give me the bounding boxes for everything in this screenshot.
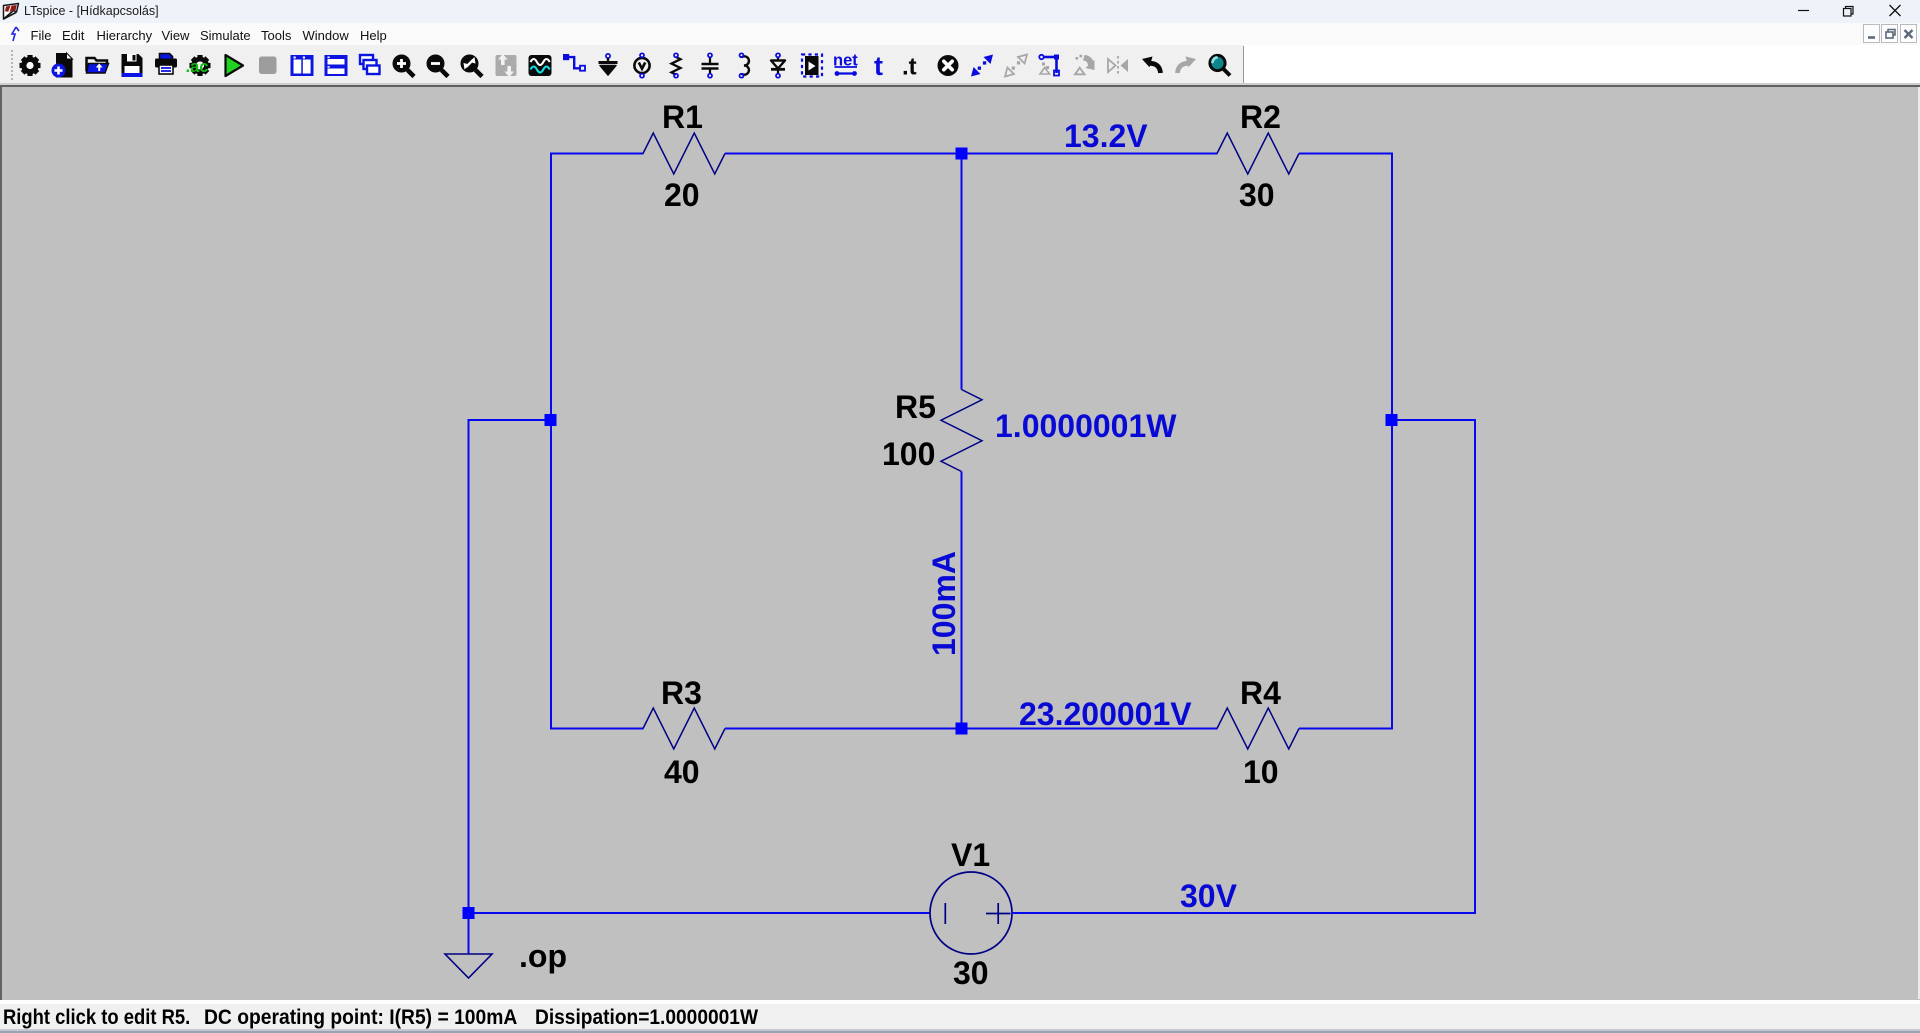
junction bottom center node [956,723,968,735]
wire R5 top lead [961,154,963,390]
menu bar [0,23,1920,45]
value 20 [664,177,700,213]
resistor R1 [643,133,725,174]
wire bottom rail left segment [551,728,644,730]
power annotation 1.0000001W [995,408,1177,444]
svg-text:23.200001V: 23.200001V [1019,696,1192,732]
wire top rail middle segment [725,153,1218,155]
resistor R2 [1217,133,1299,174]
value 10 [1243,754,1279,790]
value 100 [882,436,935,472]
wire left rail [550,153,552,730]
wire bottom rail middle segment [725,728,1218,730]
current annotation 100mA (rotated) [926,551,962,656]
svg-text:R3: R3 [661,675,702,711]
window title bar [0,0,1920,23]
wire V1 to right drop [1012,912,1477,914]
svg-text:1.0000001W: 1.0000001W [995,408,1177,444]
wire left drop vertical [468,419,470,913]
ground symbol [445,954,492,978]
svg-text:10: 10 [1243,754,1279,790]
value 40 [664,754,700,790]
wire ground stem [468,913,470,954]
svg-text:t: t [874,51,883,81]
wire bottom rail right segment [1299,728,1393,730]
svg-text:40: 40 [664,754,700,790]
svg-text:30: 30 [953,955,989,991]
toolbar separator [1243,46,1244,83]
svg-text:.op: .op [519,938,567,974]
junction top center node [956,148,968,160]
LTspice app icon [2,2,20,20]
voltage source V1 [930,872,1012,954]
resistor R5 [941,390,982,472]
mdi child window buttons [1860,23,1920,44]
status bar [0,1000,1920,1005]
source annotation 30V [1180,878,1238,914]
wire R5 bottom lead [961,472,963,729]
svg-text:.ac: .ac [186,58,209,76]
spice directive .op [519,938,567,974]
label R3 [661,675,702,711]
toolbar [0,45,1244,84]
junction ground node [463,907,475,919]
wire right drop vertical [1474,419,1476,914]
junction left rail node [545,414,557,426]
label R1 [662,99,703,135]
svg-text:100: 100 [882,436,935,472]
mdi child icon [9,26,23,42]
svg-text:R2: R2 [1240,99,1281,135]
wire top rail right segment [1299,153,1393,155]
resistor R3 [643,708,725,749]
label R4 [1240,675,1281,711]
caption buttons [1780,0,1920,23]
node annotation 23.200001V [1019,696,1192,732]
svg-text:13.2V: 13.2V [1064,118,1148,154]
wire right rail [1391,153,1393,730]
wire left stub horizontal [469,419,552,421]
label V1 [951,837,990,873]
value 30 [1239,177,1275,213]
svg-text:R5: R5 [895,389,936,425]
svg-text:V1: V1 [951,837,990,873]
wire bottom left to V1 [469,912,931,914]
svg-text:R1: R1 [662,99,703,135]
svg-text:30: 30 [1239,177,1275,213]
junction right rail node [1386,414,1398,426]
wire right stub horizontal [1392,419,1475,421]
svg-text:30V: 30V [1180,878,1238,914]
label R5 [895,389,936,425]
svg-text:.t: .t [902,54,917,81]
node annotation 13.2V [1064,118,1148,154]
value 30 (V1) [953,955,989,991]
label R2 [1240,99,1281,135]
svg-text:R4: R4 [1240,675,1281,711]
resistor R4 [1217,708,1299,749]
svg-text:20: 20 [664,177,700,213]
svg-text:100mA: 100mA [926,551,962,656]
wire top rail left segment [551,153,644,155]
toolbar icons [0,45,1920,84]
